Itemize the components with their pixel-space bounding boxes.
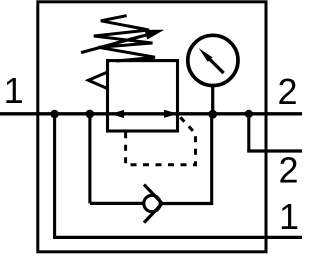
wire down from node2	[88, 114, 91, 203]
svg-text:2: 2	[278, 71, 298, 112]
node junction dot 2	[86, 110, 95, 119]
manual adjust triangle	[88, 72, 107, 88]
flow arrow left	[111, 110, 125, 118]
check valve ball V1	[144, 195, 160, 211]
svg-text:1: 1	[279, 196, 299, 237]
wire output line 2 lower	[247, 149, 302, 152]
wire main line port1 to port2	[0, 112, 302, 115]
svg-text:1: 1	[4, 70, 24, 111]
svg-text:2: 2	[279, 150, 299, 191]
wire output line 1 bottom	[53, 236, 302, 239]
gauge needle shaft	[210, 59, 224, 73]
wire down from node4	[247, 114, 250, 151]
node junction dot 4	[245, 110, 253, 118]
gauge needle arrowhead	[199, 48, 213, 62]
spring adjustment arrowhead	[145, 30, 165, 40]
node junction dot 3	[208, 110, 217, 119]
wire down from node1	[53, 114, 56, 237]
spring adjustment arrow shaft	[81, 34, 149, 52]
pressure gauge G1	[188, 35, 238, 85]
wire bypass left	[90, 202, 143, 205]
node junction dot 1	[50, 110, 59, 119]
wire bypass right	[162, 202, 212, 205]
check valve seat	[144, 185, 162, 223]
flow arrow right	[164, 110, 178, 118]
pilot dashed line	[126, 117, 196, 165]
enclosure box	[38, 2, 266, 252]
wire bypass riser to node3	[210, 114, 213, 205]
regulator body U1	[108, 61, 178, 131]
gauge stem wire	[211, 85, 214, 114]
spring zigzag	[94, 16, 155, 61]
